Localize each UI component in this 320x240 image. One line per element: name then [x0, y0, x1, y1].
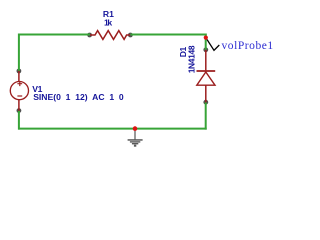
- voltage source V1 bottom terminal dot: [17, 108, 22, 113]
- ground: [128, 130, 143, 147]
- wire right vertical lower: [206, 102, 207, 129]
- voltage source V1 label: [32, 84, 42, 94]
- wire top-right horizontal: [130, 34, 206, 36]
- voltage source V1 top terminal dot: [17, 69, 22, 74]
- svg-text:1k: 1k: [104, 18, 112, 28]
- diode D1 label: [178, 46, 188, 57]
- resistor R1 right terminal dot: [128, 33, 133, 38]
- diode D1 bottom terminal dot: [203, 100, 208, 105]
- wire bottom horizontal: [18, 128, 207, 130]
- diode D1 top terminal dot: [203, 47, 208, 52]
- node volProbe1 junction dot: [204, 36, 208, 40]
- wire right vertical upper: [205, 34, 207, 51]
- voltage source V1 value SINE(0 1 12) AC 1 0: [33, 92, 124, 102]
- svg-text:SINE(0 1 12) AC 1 0: SINE(0 1 12) AC 1 0: [33, 92, 124, 102]
- diode D1 value 1N4148: [187, 45, 197, 73]
- wire left vertical lower: [18, 111, 20, 130]
- wire top-left horizontal: [18, 34, 90, 36]
- svg-text:1N4148: 1N4148: [187, 45, 197, 73]
- diode D1: [197, 50, 216, 103]
- node volProbe1 probe symbol: [207, 40, 219, 51]
- voltage source V1: [10, 71, 28, 111]
- node volProbe1 label: [222, 40, 274, 52]
- svg-text:volProbe1: volProbe1: [222, 40, 274, 52]
- resistor R1 left terminal dot: [87, 33, 92, 38]
- resistor R1: [90, 31, 130, 40]
- wire left vertical upper: [18, 34, 20, 72]
- resistor R1 value 1k: [104, 18, 112, 28]
- ground junction dot: [133, 126, 138, 131]
- resistor R1 label: [103, 9, 114, 19]
